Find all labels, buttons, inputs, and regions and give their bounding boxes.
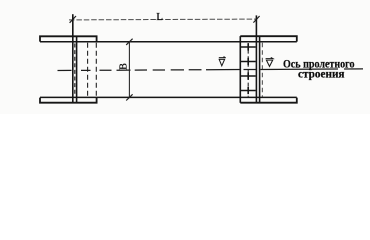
extension line / left end-post inner web line [72,14,74,103]
top-right bracket plate [240,36,296,41]
tick at bottom of B [126,94,132,100]
tick at right end of L [253,16,259,23]
level mark 1 [219,59,224,65]
bolt mark 2 [240,58,255,65]
hidden line (left cross-beam centreline) [87,43,89,97]
svg-text:строения: строения [298,69,345,81]
girder top line [40,41,297,43]
right cross-beam near edge [239,36,241,103]
right end-post inner web line / extension of L [255,15,257,103]
bolt mark 4 [240,87,255,94]
bolt mark 1 [240,43,255,50]
girder bottom line [40,96,297,98]
svg-text:В: В [119,63,130,70]
right cross-beam bolted centreline [247,43,249,97]
level mark 2 [266,60,272,66]
svg-text:L: L [156,11,163,23]
dimension line L [69,18,257,21]
top-left bracket plate [40,36,97,41]
tick at left end of L [70,16,76,23]
hidden line beside right end-post [261,43,263,97]
right end-post outer web line [259,36,261,103]
left end-post outer web line [76,36,78,103]
dimension line B [128,42,130,98]
span axis centreline [58,69,364,71]
bottom-left bracket plate [40,98,97,103]
left end-post dashed axis [74,44,76,97]
tick at top of B [126,39,132,45]
bolt mark 3 [240,72,255,79]
hidden line (left cross-beam far edge) [95,43,97,97]
bottom-right bracket plate [240,98,296,103]
